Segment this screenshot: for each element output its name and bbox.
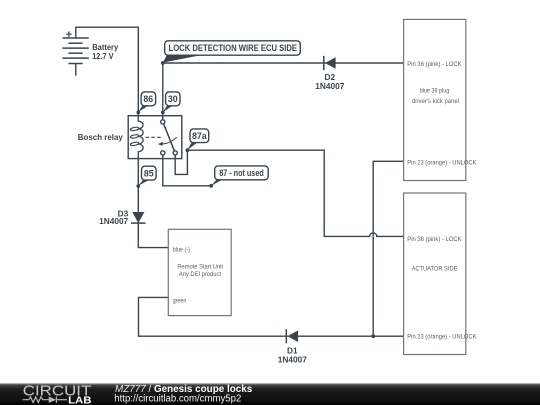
svg-text:green: green bbox=[173, 298, 187, 305]
svg-text:1N4007: 1N4007 bbox=[278, 355, 307, 365]
svg-text:Remote Start Unit: Remote Start Unit bbox=[177, 264, 223, 271]
svg-text:Pin 36 (pink) - LOCK: Pin 36 (pink) - LOCK bbox=[407, 236, 462, 243]
svg-text:86: 86 bbox=[143, 94, 153, 104]
svg-text:ACTUATOR SIDE: ACTUATOR SIDE bbox=[412, 266, 458, 273]
svg-text:Pin 23 (orange) - UNLOCK: Pin 23 (orange) - UNLOCK bbox=[407, 160, 476, 167]
svg-text:87a: 87a bbox=[192, 131, 207, 141]
svg-text:Bosch relay: Bosch relay bbox=[78, 132, 123, 142]
svg-text:Any DEI product: Any DEI product bbox=[179, 271, 221, 278]
svg-text:1N4007: 1N4007 bbox=[315, 81, 344, 91]
svg-text:driver's kick panel: driver's kick panel bbox=[412, 98, 459, 105]
svg-text:Pin 23 (orange) - UNLOCK: Pin 23 (orange) - UNLOCK bbox=[407, 334, 476, 341]
svg-text:blue 39 plug: blue 39 plug bbox=[420, 88, 450, 95]
svg-text:12.7 V: 12.7 V bbox=[92, 51, 114, 61]
svg-text:30: 30 bbox=[168, 94, 178, 104]
svg-text:LOCK DETECTION WIRE ECU SIDE: LOCK DETECTION WIRE ECU SIDE bbox=[169, 43, 298, 53]
svg-text:85: 85 bbox=[144, 169, 154, 179]
svg-text:blue (-): blue (-) bbox=[173, 247, 190, 254]
svg-text:Pin 36 (pink) - LOCK: Pin 36 (pink) - LOCK bbox=[407, 61, 462, 68]
svg-text:87 - not used: 87 - not used bbox=[219, 168, 264, 178]
svg-text:1N4007: 1N4007 bbox=[99, 216, 128, 226]
svg-text:http://circuitlab.com/cmmy5p2: http://circuitlab.com/cmmy5p2 bbox=[114, 394, 241, 405]
svg-text:LAB: LAB bbox=[68, 395, 91, 405]
